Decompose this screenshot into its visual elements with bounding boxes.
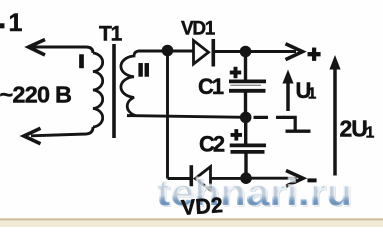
svg-text:1: 1 [308, 86, 317, 103]
2U1 label [340, 116, 375, 142]
winding II label [139, 63, 149, 76]
arrow output plus [286, 44, 303, 60]
wire: bottom rail to VD2 [168, 177, 192, 180]
U1 measure arrow [286, 82, 290, 111]
wire: node D to output minus [246, 177, 297, 180]
capacitor C2 plus mark [231, 129, 242, 140]
svg-text:2U: 2U [340, 116, 368, 142]
winding I label [79, 55, 83, 69]
diode VD2 [195, 167, 210, 190]
wire: node M down to C2 [244, 117, 247, 145]
primary winding I of T1 [93, 53, 103, 127]
arrow output minus [286, 171, 303, 187]
arrow left top [29, 40, 46, 56]
svg-text:T1: T1 [99, 23, 123, 46]
node B junction dot [240, 46, 252, 58]
wire: primary bottom lead [31, 127, 93, 136]
svg-text:1: 1 [366, 125, 375, 142]
bottom cream strip [0, 220, 383, 227]
svg-text:VD1: VD1 [181, 19, 216, 40]
wire: node A to VD1 [168, 50, 194, 53]
wire: VD1 to node B [213, 50, 296, 53]
label ". 1" (fig number) [0, 9, 23, 37]
wire: VD2 to node D [211, 177, 247, 180]
wire: node B down to C1 [244, 52, 247, 82]
svg-text:C1: C1 [198, 74, 224, 99]
bottom page edge line [0, 218, 383, 220]
transformer core [112, 44, 116, 138]
svg-text:VD2: VD2 [180, 193, 223, 220]
wire: C2 to node D [244, 152, 247, 178]
node A junction dot [162, 45, 174, 57]
wire: secondary bottom to midpoint node M [127, 116, 246, 118]
2U1 measure arrow [333, 69, 337, 176]
capacitor C1 plus mark [230, 67, 241, 78]
node D junction dot [240, 172, 252, 184]
plus sign output [308, 48, 321, 61]
svg-text:1: 1 [9, 9, 23, 37]
minus sign output [308, 179, 317, 183]
wire: node A down to bottom rail [166, 51, 169, 179]
midpoint terminal bar [286, 129, 311, 132]
dashed midpoint lead [254, 116, 286, 119]
watermark tehnari.ru [156, 172, 354, 216]
wire: secondary top to node A [138, 50, 168, 53]
capacitor C2 [230, 145, 266, 152]
capacitor C1 [229, 81, 266, 90]
diode VD1 [194, 41, 209, 65]
svg-text:~220 В: ~220 В [0, 82, 71, 108]
secondary winding II of T1 [121, 51, 140, 116]
node M junction dot [240, 112, 252, 124]
U1 label [296, 78, 317, 103]
wire: C1 to node M [244, 91, 247, 117]
arrow left bottom [24, 128, 41, 144]
svg-text:C2: C2 [199, 132, 225, 157]
wire: primary top lead [31, 47, 93, 53]
